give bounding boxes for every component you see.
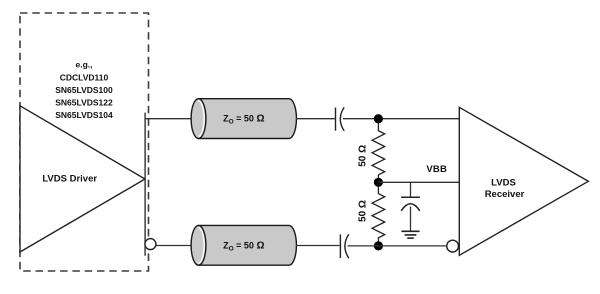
bubble (inverting input of receiver) xyxy=(447,240,459,252)
svg-text:LVDS Driver: LVDS Driver xyxy=(42,173,97,184)
wire bottom: transmission line to capacitor xyxy=(296,245,340,247)
svg-text:50 Ω: 50 Ω xyxy=(357,145,368,167)
svg-text:e.g.,: e.g., xyxy=(75,60,92,70)
wire top: capacitor to receiver xyxy=(343,118,459,120)
svg-text:CDCLVD110: CDCLVD110 xyxy=(60,72,109,82)
svg-text:VBB: VBB xyxy=(426,164,447,175)
node VBB junction dot (middle) xyxy=(374,178,383,187)
wire driver output vertical bus xyxy=(144,113,146,256)
svg-text:SN65LVDS100: SN65LVDS100 xyxy=(55,85,113,95)
wire top: transmission line to capacitor xyxy=(296,118,335,120)
svg-text:Receiver: Receiver xyxy=(485,189,525,200)
resistor R1 50 ohm (top) xyxy=(372,123,385,182)
resistor R2 50 ohm (bottom) xyxy=(372,186,385,245)
node A junction dot (top) xyxy=(374,114,383,123)
dashed box (driver IC boundary) xyxy=(20,13,149,271)
capacitor C2 (series, bottom) xyxy=(340,234,348,258)
transmission line Z2 (cylinder) xyxy=(191,225,296,265)
wire top: driver to transmission line xyxy=(145,118,192,120)
device list label xyxy=(55,60,113,121)
op-amp U1 LVDS Driver triangle xyxy=(20,106,145,252)
LVDS Receiver label xyxy=(485,177,525,199)
wire bottom: capacitor to receiver bubble xyxy=(348,245,447,247)
capacitor C1 (series, top) xyxy=(336,107,345,131)
svg-text:SN65LVDS122: SN65LVDS122 xyxy=(55,98,113,108)
capacitor C3 (shunt to ground) xyxy=(401,197,420,211)
svg-text:50 Ω: 50 Ω xyxy=(357,200,368,222)
wire bottom: driver bubble to transmission line xyxy=(156,245,192,247)
svg-text:SN65LVDS104: SN65LVDS104 xyxy=(55,110,113,120)
op-amp U2 LVDS Receiver triangle xyxy=(459,107,588,255)
transmission line Z1 (cylinder) xyxy=(191,99,296,139)
wire VBB to shunt capacitor xyxy=(410,182,412,197)
wire VBB node to receiver xyxy=(378,181,459,183)
bubble (inverting output of driver) xyxy=(145,239,156,250)
ground xyxy=(401,231,419,238)
svg-text:LVDS: LVDS xyxy=(491,177,516,188)
wire shunt capacitor to ground xyxy=(410,207,412,232)
node B junction dot (bottom) xyxy=(374,241,383,250)
